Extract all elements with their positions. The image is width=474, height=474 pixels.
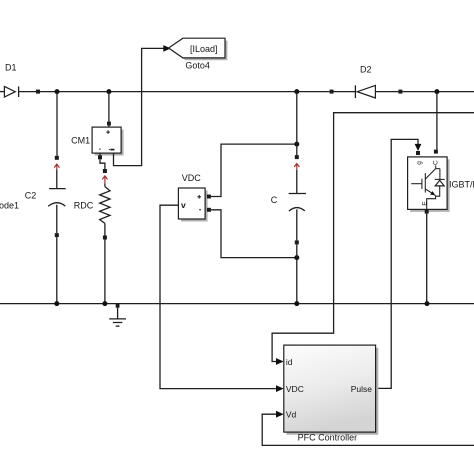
red dangling arrow C2 bbox=[54, 164, 59, 170]
wire to D2 bbox=[334, 91, 356, 93]
port RDC top bbox=[103, 169, 107, 173]
wire VDC minus to C bottom node bbox=[211, 210, 297, 258]
wire bus to CM1 bbox=[108, 92, 110, 122]
arrowhead into PFC Vd bbox=[276, 411, 284, 418]
svg-text:IGBT/D: IGBT/D bbox=[449, 179, 474, 189]
wire D2 to port bbox=[375, 91, 398, 93]
port RDC bottom bbox=[103, 236, 107, 240]
voltage measurement VDC bbox=[178, 173, 207, 222]
port C top bbox=[295, 155, 299, 159]
node junction top-left bbox=[55, 89, 60, 94]
svg-text:ode1: ode1 bbox=[0, 200, 19, 210]
wire C top node to C bbox=[296, 92, 298, 156]
node junction minus/C bbox=[294, 255, 299, 260]
svg-text:Vd: Vd bbox=[286, 410, 297, 420]
node junction IGBT emitter bbox=[425, 301, 430, 306]
svg-text:D2: D2 bbox=[360, 65, 372, 75]
svg-text:PFC Controller: PFC Controller bbox=[298, 433, 358, 443]
port IGBT gate bbox=[416, 151, 420, 155]
arrowhead into IGBT gate bbox=[415, 144, 422, 151]
svg-text:C: C bbox=[433, 160, 440, 165]
node junction IGBT top bbox=[434, 89, 439, 94]
wire RDC to bottom bus bbox=[104, 240, 106, 304]
node junction CM1 top bbox=[106, 89, 111, 94]
wire bus to C2 bbox=[56, 92, 58, 156]
wire bus to IGBT collector bbox=[436, 92, 438, 150]
svg-text:Pulse: Pulse bbox=[351, 384, 373, 394]
svg-text:C: C bbox=[271, 195, 278, 205]
svg-text:CM1: CM1 bbox=[71, 136, 90, 146]
diode D2 bbox=[355, 65, 375, 99]
port C2 bottom bbox=[55, 233, 59, 237]
wire C2 to bottom bus bbox=[56, 237, 58, 304]
port CM1 top bbox=[107, 122, 111, 126]
node junction plus/C bbox=[294, 142, 299, 147]
wire C to bottom bus bbox=[296, 244, 298, 303]
svg-text:g: g bbox=[416, 161, 423, 165]
port IGBT collector bbox=[434, 150, 438, 154]
transistor IGBT/Diode block bbox=[408, 157, 450, 212]
current measurement CM1 bbox=[71, 126, 123, 156]
port CM1 bottom-left bbox=[98, 155, 102, 159]
port IGBT emitter bbox=[425, 210, 429, 214]
svg-text:id: id bbox=[286, 357, 293, 367]
wire D1 to port bbox=[19, 91, 36, 93]
goto tag Goto4 [ILoad] bbox=[169, 38, 228, 70]
wire VDC v-output to PFC bbox=[160, 205, 276, 388]
arrowhead into PFC id bbox=[276, 358, 284, 365]
port C bottom bbox=[295, 240, 299, 244]
port VDC minus bbox=[207, 208, 211, 212]
wire Vd signal from right edge to PFC bbox=[262, 414, 474, 445]
node junction C top bbox=[294, 89, 299, 94]
svg-text:C2: C2 bbox=[25, 191, 37, 201]
wire id signal from right edge to PFC bbox=[272, 113, 474, 362]
wire VDC plus to C top node bbox=[211, 144, 297, 196]
port D2 left bbox=[330, 90, 334, 94]
wire IGBT emitter to bottom bus bbox=[426, 214, 428, 304]
arrowhead into Goto4 bbox=[163, 45, 171, 52]
svg-text:VDC: VDC bbox=[286, 384, 304, 394]
diode D1 bbox=[4, 63, 18, 98]
wire CM1 i-output to Goto4 bbox=[114, 48, 164, 165]
arrowhead into PFC VDC bbox=[276, 385, 284, 392]
capacitor C bbox=[271, 170, 306, 241]
resistor RDC bbox=[74, 183, 110, 235]
svg-text:RDC: RDC bbox=[74, 201, 94, 211]
svg-text:E: E bbox=[421, 201, 428, 206]
svg-text:VDC: VDC bbox=[182, 173, 202, 183]
port VDC plus bbox=[207, 195, 211, 199]
node junction C2 bottom bbox=[54, 301, 59, 306]
wire CM1 minus jog to RDC bbox=[100, 153, 105, 169]
wire top bus middle bbox=[40, 91, 330, 93]
port C2 top bbox=[55, 156, 59, 160]
wire bottom bus bbox=[0, 303, 474, 305]
red dangling arrow RDC bbox=[102, 176, 107, 184]
node junction RDC bottom bbox=[102, 301, 107, 306]
svg-text:Goto4: Goto4 bbox=[185, 61, 210, 71]
port D1 right bbox=[36, 90, 40, 94]
wire top bus right bbox=[402, 91, 474, 93]
svg-text:[ILoad]: [ILoad] bbox=[190, 44, 218, 54]
subsystem PFC Controller bbox=[284, 345, 379, 443]
wire top bus left lead bbox=[0, 91, 4, 93]
ground bbox=[109, 303, 126, 326]
capacitor C2 bbox=[25, 170, 66, 233]
node junction C bottom bbox=[294, 301, 299, 306]
wire Pulse to IGBT gate bbox=[376, 139, 418, 388]
port D2 right bbox=[398, 90, 402, 94]
red dangling arrow C bbox=[294, 164, 299, 170]
svg-text:v: v bbox=[181, 200, 186, 210]
svg-text:D1: D1 bbox=[5, 63, 17, 73]
